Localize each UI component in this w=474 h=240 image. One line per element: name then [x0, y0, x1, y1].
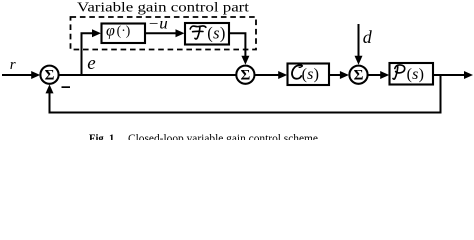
summing junction 1	[40, 66, 58, 84]
svg-text:φ: φ	[106, 22, 115, 39]
block F(s)	[185, 23, 229, 45]
wire: C(s) to junction 3	[329, 74, 341, 76]
wire: phi output to F(s) with arrow	[145, 32, 176, 34]
svg-text:d: d	[363, 27, 373, 47]
block C(s)	[288, 64, 330, 86]
svg-text:Fig. 1.: Fig. 1.	[89, 131, 117, 140]
dashed box: variable gain control part	[71, 17, 257, 50]
svg-text:Variable gain control part: Variable gain control part	[77, 1, 249, 16]
svg-text:(s): (s)	[207, 24, 225, 43]
summing junction 2	[236, 66, 254, 84]
wire: branch from node e on main line up into dashed box, arrow into phi block	[82, 33, 93, 76]
svg-text:Σ: Σ	[354, 67, 364, 83]
wire: main line from junction 1 to junction 2	[59, 74, 237, 76]
svg-text:Closed-loop variable gain cont: Closed-loop variable gain control scheme	[128, 131, 318, 140]
wire: feedback from output down, left, and up into junction 1	[50, 75, 441, 113]
svg-text:−u: −u	[148, 15, 168, 32]
svg-text:(·): (·)	[117, 23, 131, 38]
svg-text:(s): (s)	[407, 66, 424, 83]
wire: disturbance d into junction 3	[358, 24, 360, 57]
wire: junction 3 to P(s)	[368, 74, 381, 76]
svg-text:Σ: Σ	[45, 67, 55, 83]
block phi(.)	[102, 24, 146, 44]
svg-text:r: r	[10, 57, 16, 73]
wire: F(s) output down into summing junction 2	[229, 33, 245, 56]
wire: junction 2 to C(s)	[255, 74, 279, 76]
wire: P(s) output to the right	[433, 74, 465, 76]
summing junction 3	[349, 66, 367, 84]
svg-text:Σ: Σ	[240, 67, 250, 83]
svg-text:(s): (s)	[302, 66, 319, 83]
block P(s)	[390, 63, 434, 85]
svg-text:e: e	[87, 53, 95, 74]
wire: input r arrow into summing junction 1	[2, 74, 32, 76]
label minus sign at feedback input	[62, 86, 71, 88]
